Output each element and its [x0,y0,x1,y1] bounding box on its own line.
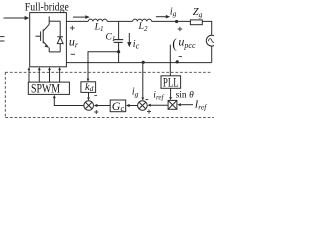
multiplier [168,100,177,109]
wire upcc sense to PLL [169,45,171,76]
plus upcc [178,27,183,32]
full-bridge box [30,13,67,67]
node dot upcc top [175,20,178,23]
sum1 to SPWM arrowhead [53,95,56,98]
kd input arrowhead [87,79,90,82]
plus/minus signs [70,26,182,114]
wire bottom rail [66,62,211,64]
top current arrow (bridge out) [73,16,86,18]
wire L1 to L2 [107,20,132,22]
wire dc input arrow [4,17,26,19]
wire Zg to corner [202,21,211,35]
SPWM box [28,82,69,94]
minus sum2 [146,99,149,101]
node dot C1 [117,50,120,53]
svg-text:Gc: Gc [112,99,125,113]
wire sum2 to Gc [130,105,138,107]
dashed control box [5,72,214,117]
svg-text:Iref: Iref [194,100,207,112]
dc source = marks [0,37,5,41]
into sum1 arrowhead [94,104,98,107]
svg-text:L2: L2 [138,21,148,33]
svg-text:ig: ig [170,6,177,18]
impedance Zg [190,20,202,25]
PLL box [161,76,181,89]
bridge out arrowhead [85,15,90,19]
inductor L1 [88,19,107,21]
arrowheads [25,15,181,107]
summer sum1 [84,101,94,111]
wire ic sense to kd [88,52,119,79]
grid source [206,35,217,46]
kd to sum1 arrowhead [87,97,90,100]
plus sum2 [147,110,151,114]
svg-text:ig: ig [132,87,139,99]
wire source to rail [211,46,213,63]
svg-text:PLL: PLL [163,75,179,90]
PLL to mult arrowhead [169,97,172,100]
diode D1 [57,21,63,52]
svg-text:L1: L1 [94,21,104,33]
ig top arrowhead [166,15,170,19]
plus ur [70,26,75,31]
wire sum1 to SPWM [54,98,84,106]
svg-text:kd: kd [85,82,94,93]
into mult arrowhead [177,103,181,106]
plus sum1 [94,110,98,114]
minus upcc [179,56,182,58]
into Gc arrowhead [126,104,130,107]
capacitor C1 branch [118,21,120,39]
summer sum2 [138,101,148,111]
wire kd to sum1 [88,92,90,97]
wire mult to sum2 [151,104,168,106]
wire L2 to Zg [152,20,191,22]
wire Iref to mult [181,104,193,106]
svg-text:iref: iref [153,91,164,102]
ig top arrow [156,16,167,18]
Gc box [110,100,126,112]
svg-text:C1: C1 [106,32,116,43]
ic arrowhead [127,42,131,47]
svg-text:ic: ic [133,39,140,51]
kd box [81,82,96,93]
wire ig sense [142,63,144,98]
wire Gc to sum1 [97,105,110,107]
svg-text:upcc: upcc [178,35,196,51]
wire PLL to mult [170,88,172,97]
svg-text:sin θ: sin θ [176,91,194,101]
minus ur [71,53,75,55]
svg-text:(: ( [172,36,177,51]
gate arrowheads [28,67,31,70]
IGBT Q1 [36,16,61,52]
dc in arrowhead [25,16,30,20]
into sum2 arrowhead [147,104,150,107]
ig to sum2 arrowhead [141,97,144,100]
wire top output [66,20,88,22]
svg-text:SPWM: SPWM [31,81,60,95]
svg-text:ur: ur [69,34,79,49]
ic arrow [128,33,130,43]
node dot upcc bottom [176,60,179,63]
svg-text:Zg: Zg [193,7,203,19]
node dot ig [142,61,145,64]
gate wires [28,70,30,82]
svg-text:Full-bridge: Full-bridge [25,0,69,14]
minus sum1 [94,95,97,97]
inductor L2 [133,19,152,21]
